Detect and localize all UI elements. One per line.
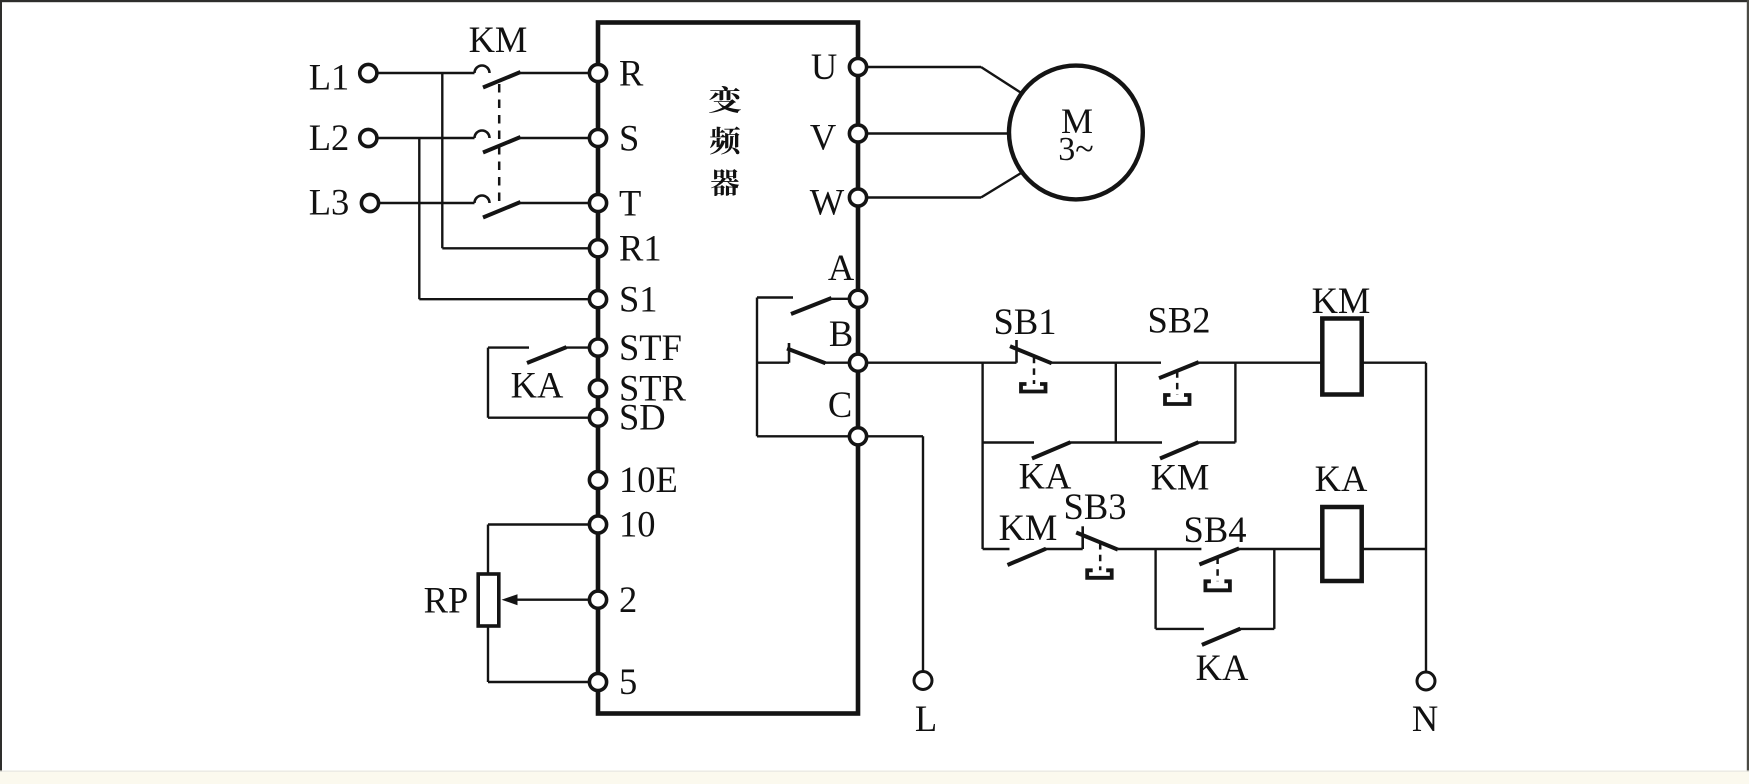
inverter terminal STR — [589, 368, 686, 409]
wire SB2 to KM coil — [1199, 362, 1323, 364]
contactor KM main contact 1 — [475, 66, 521, 88]
wire C to L — [867, 435, 923, 437]
page frame right border — [1747, 0, 1749, 772]
wire KA loop bottom right — [1240, 628, 1274, 630]
svg-text:T: T — [619, 182, 641, 223]
pushbutton SB1 (NC stop) — [994, 301, 1057, 392]
wire L1 branch down to R1 — [441, 73, 443, 248]
coil KM — [1312, 280, 1371, 395]
wire L2 to contact — [377, 137, 475, 139]
contactor KM mechanical linkage (dashed) — [498, 84, 501, 208]
svg-text:L3: L3 — [309, 182, 350, 223]
svg-text:SB1: SB1 — [994, 301, 1057, 342]
inverter U1 box (variable frequency drive) — [598, 23, 858, 714]
inverter terminal R — [589, 52, 644, 93]
wire B to SB1 — [867, 362, 1017, 364]
pushbutton SB2 (NO start) — [1148, 300, 1211, 405]
svg-text:KM: KM — [1151, 456, 1210, 497]
svg-text:KA: KA — [1196, 647, 1249, 688]
wire left branch down (node B1) — [981, 363, 983, 549]
svg-text:L1: L1 — [309, 57, 350, 98]
svg-text:RP: RP — [424, 580, 469, 621]
wire L2 branch down to S1 — [418, 138, 420, 299]
page frame top border — [0, 0, 1749, 2]
wire SB4 to KA coil — [1239, 548, 1323, 550]
wire KA loop right — [1273, 549, 1275, 629]
wire V to motor — [867, 132, 1010, 134]
svg-text:KM: KM — [999, 507, 1058, 548]
wire branch to KA contact — [983, 441, 1034, 443]
inverter terminal SD — [589, 397, 665, 438]
potentiometer RP — [424, 574, 499, 626]
wire KA coil to N line — [1362, 548, 1426, 550]
contactor contact KM (interlock) — [999, 507, 1058, 565]
inverter terminal C — [828, 384, 867, 445]
svg-text:R: R — [619, 52, 644, 93]
inverter terminal R1 — [589, 228, 661, 269]
inverter terminal STF — [589, 327, 682, 368]
inverter terminal 10E — [589, 459, 677, 500]
relay changeover contact A-B-C (left bracket) — [756, 298, 758, 437]
wire right branch up — [1234, 363, 1236, 443]
svg-text:SB2: SB2 — [1148, 300, 1211, 341]
wire KM contact to SB3 — [1046, 548, 1083, 550]
wiper arrow RP to terminal 2 — [502, 594, 590, 605]
svg-text:B: B — [829, 313, 853, 354]
relay contact KA (seal-in) — [1019, 442, 1072, 496]
svg-text:KA: KA — [1315, 458, 1368, 499]
wire 10 to RP — [488, 523, 589, 525]
svg-text:S: S — [619, 117, 639, 158]
svg-text:3~: 3~ — [1058, 131, 1093, 168]
pushbutton SB3 (NC) — [1064, 486, 1127, 578]
inverter terminal 10 — [589, 504, 655, 545]
svg-text:W: W — [810, 181, 845, 222]
inverter terminal 5 — [589, 661, 637, 702]
contactor KM main contact 3 — [475, 196, 521, 218]
relay contact KA (start, STF-SD) — [488, 347, 589, 418]
terminal L3 — [309, 182, 379, 223]
inverter terminal A — [828, 247, 867, 307]
wire W to motor — [867, 196, 981, 198]
terminal N — [1412, 672, 1438, 739]
svg-text:KA: KA — [511, 365, 564, 406]
wire L3 to contact — [377, 202, 475, 204]
wire KA loop left — [1154, 549, 1156, 629]
relay contact KA (seal-in around SB4) — [1196, 629, 1249, 688]
svg-text:SB4: SB4 — [1184, 509, 1247, 550]
wire U to motor — [867, 66, 981, 68]
contactor KM main contact 2 — [475, 131, 521, 153]
wire L1 to contact — [377, 72, 475, 74]
wire KM contact to right node — [1198, 441, 1235, 443]
relay contact A — [757, 298, 850, 315]
svg-text:STF: STF — [619, 327, 682, 368]
inverter terminal S — [589, 117, 639, 158]
wire mid branch up — [1115, 363, 1117, 443]
svg-text:N: N — [1412, 698, 1438, 739]
svg-text:A: A — [828, 247, 855, 288]
contactor contact KM (seal-in) — [1151, 442, 1210, 497]
svg-text:KM: KM — [469, 19, 528, 60]
terminal L2 — [309, 117, 377, 158]
wire C to bracket — [757, 435, 850, 437]
svg-text:U: U — [811, 46, 837, 87]
relay contact B (closed) — [757, 343, 850, 363]
wire contact 1 to inverter — [520, 72, 590, 74]
svg-text:V: V — [810, 117, 836, 158]
svg-text:L2: L2 — [309, 117, 350, 158]
inverter terminal B — [829, 313, 867, 371]
motor M 3~ — [1009, 66, 1143, 200]
inverter terminal V — [810, 117, 867, 158]
wire KA contact to KM contact — [1070, 441, 1162, 443]
inverter terminal U — [811, 46, 867, 87]
wire RP to 5 — [487, 626, 489, 682]
inverter terminal T — [589, 182, 641, 223]
svg-text:10E: 10E — [619, 459, 678, 500]
wire contact 2 to inverter — [520, 137, 590, 139]
wire KA loop bottom left — [1156, 628, 1204, 630]
wire N line down — [1425, 363, 1427, 672]
svg-text:L: L — [915, 698, 937, 739]
svg-text:KM: KM — [1312, 280, 1371, 321]
svg-text:SB3: SB3 — [1064, 486, 1127, 527]
bottom page strip — [0, 771, 1749, 772]
svg-text:10: 10 — [619, 504, 656, 545]
inverter terminal 2 — [589, 579, 637, 620]
wire contact 3 to inverter — [520, 202, 590, 204]
inverter terminal S1 — [589, 278, 657, 319]
wire SB3 to SB4 — [1118, 548, 1201, 550]
wire KM coil to N line — [1362, 362, 1426, 364]
svg-text:5: 5 — [619, 661, 637, 702]
svg-text:C: C — [828, 384, 852, 425]
svg-text:SD: SD — [619, 397, 666, 438]
inverter terminal W — [810, 181, 867, 222]
wire rung2 start — [983, 548, 1010, 550]
coil KA — [1315, 458, 1368, 581]
svg-text:2: 2 — [619, 579, 637, 620]
pushbutton SB4 (NO) — [1184, 509, 1247, 590]
inverter label 变频器 (vertical) — [709, 86, 741, 196]
page frame left border — [0, 0, 2, 781]
terminal L — [914, 672, 937, 740]
wire SB1 to SB2 — [1052, 362, 1162, 364]
svg-text:S1: S1 — [619, 278, 658, 319]
svg-text:R1: R1 — [619, 228, 662, 269]
terminal L1 — [309, 57, 377, 98]
